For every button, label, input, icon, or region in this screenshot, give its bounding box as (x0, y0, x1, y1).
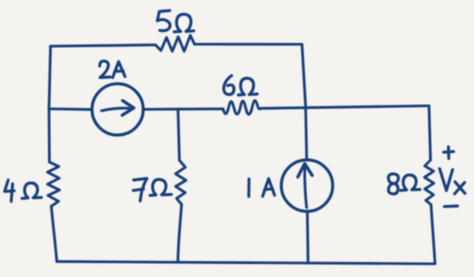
label ohm of 8ohm (401, 175, 420, 190)
resistor R 8ohm zigzag (425, 160, 434, 205)
arrow of 1A source (305, 166, 307, 208)
label 2 of 2A (100, 61, 110, 78)
resistor R 7ohm zigzag (176, 160, 186, 204)
wire crossing down to 1A source top (306, 107, 307, 160)
wire left side top (49, 46, 51, 109)
label A of 1A (263, 179, 275, 197)
resistor R 6ohm zigzag (223, 101, 261, 115)
wire 7ohm to bottom (178, 204, 182, 260)
wire 5ohm to top-right corner (195, 43, 303, 46)
wire middle horizontal from left to 2A source (49, 107, 92, 110)
wire 1A source to bottom (306, 211, 310, 263)
arrow of 2A source (102, 108, 130, 111)
label 1 of 1A (247, 179, 250, 196)
label 5 of 5ohm (157, 11, 170, 31)
wire top-right corner down to middle crossing (302, 44, 306, 106)
wire middle vertical 7ohm branch top (178, 109, 179, 160)
resistor R 5ohm zigzag (156, 35, 195, 51)
label ohm of 5ohm (174, 14, 194, 32)
label x of Vx (455, 182, 465, 194)
label ohm of 7ohm (150, 179, 171, 195)
label V of Vx (440, 169, 453, 191)
label plus sign (444, 147, 454, 159)
label ohm of 4ohm (22, 183, 41, 198)
wire 8ohm to bottom-right corner (431, 205, 435, 264)
label 8 of 8ohm (388, 174, 398, 194)
label 7 of 7ohm (133, 178, 147, 201)
resistor R 4ohm zigzag (48, 162, 60, 206)
wire 4ohm to bottom-left corner (51, 206, 57, 261)
wire top-left to 5ohm (51, 45, 156, 46)
wire right side top (429, 106, 431, 160)
wire left side middle (48, 109, 51, 162)
label A of 2A (113, 62, 125, 78)
label minus sign (444, 205, 457, 209)
label 6 of 6ohm (224, 76, 234, 95)
labels drawn as handwriting strokes (5, 11, 465, 207)
wire 6ohm to right side (261, 106, 429, 109)
wire bottom (57, 262, 435, 264)
current source I 1A circle (281, 160, 332, 211)
label 4 of 4ohm (5, 180, 15, 201)
current source I 2A circle (92, 84, 143, 135)
wire 2A source to 6ohm (143, 108, 223, 111)
label ohm of 6ohm (238, 78, 257, 95)
